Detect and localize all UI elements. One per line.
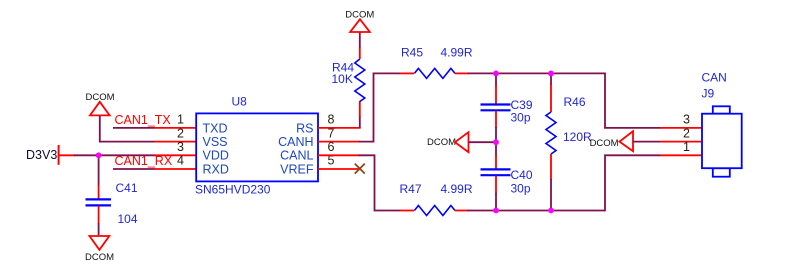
- svg-text:CAN1_RX: CAN1_RX: [115, 154, 173, 168]
- wire pin8 up to R44: [359, 116, 361, 128]
- svg-text:CAN: CAN: [702, 71, 727, 85]
- svg-text:RXD: RXD: [203, 162, 229, 176]
- svg-text:4: 4: [177, 154, 184, 168]
- pin 8 RS: [318, 127, 361, 129]
- pin 2 VSS: [154, 141, 196, 143]
- ground DCOM (mid, C39/C40 tap): [427, 132, 469, 152]
- pin 7 CANH: [318, 141, 359, 143]
- resistor R44: [332, 32, 365, 118]
- svg-text:120R: 120R: [563, 130, 592, 144]
- wire top rail to J9 pin 3: [605, 73, 661, 128]
- svg-text:4.99R: 4.99R: [441, 182, 473, 196]
- node C39/C40 junction: [493, 139, 499, 145]
- svg-text:30p: 30p: [511, 181, 531, 195]
- svg-text:DCOM: DCOM: [85, 252, 114, 263]
- node R46/bottom rail junction: [548, 208, 554, 214]
- resistor R46: [546, 73, 592, 210]
- wire node to pin 3: [99, 154, 155, 156]
- pin 1 TXD: [154, 127, 196, 129]
- svg-text:SN65HVD230: SN65HVD230: [195, 183, 271, 197]
- svg-text:R45: R45: [401, 45, 423, 59]
- node CANH/R46 junction: [548, 71, 554, 77]
- svg-text:2: 2: [177, 126, 184, 140]
- wire J9 DCOM to pin 2: [633, 141, 661, 143]
- net CAN1_RX: [113, 154, 173, 169]
- node C40/bottom rail junction: [493, 208, 499, 214]
- power DCOM (above R44): [345, 9, 374, 32]
- J9 pin 1 wire: [660, 154, 702, 156]
- wire bottom rail to J9 pin 1: [605, 155, 661, 211]
- svg-text:RS: RS: [296, 121, 313, 135]
- svg-text:R47: R47: [400, 182, 422, 196]
- wire CANL to bottom rail: [359, 155, 401, 210]
- node junction D3V3/C41/VDD: [96, 152, 102, 158]
- svg-text:DCOM: DCOM: [427, 137, 456, 148]
- net CAN1_TX: [113, 113, 171, 128]
- ground DCOM (below C41): [85, 236, 114, 263]
- pin 3 VDD: [154, 154, 196, 156]
- svg-text:VREF: VREF: [280, 162, 314, 176]
- pin 4 RXD: [154, 168, 196, 170]
- svg-text:U8: U8: [232, 95, 248, 109]
- svg-text:C41: C41: [116, 181, 138, 195]
- pin 6 CANL: [318, 154, 359, 156]
- svg-text:DCOM: DCOM: [590, 138, 619, 149]
- resistor R45: [400, 45, 473, 78]
- resistor R47: [400, 182, 473, 216]
- svg-text:CANL: CANL: [280, 149, 313, 163]
- no-connect X on VREF: [355, 164, 365, 174]
- svg-text:4.99R: 4.99R: [441, 45, 473, 59]
- svg-text:R46: R46: [564, 95, 586, 109]
- bottom rail wire: [468, 210, 606, 212]
- svg-text:C40: C40: [511, 168, 533, 182]
- svg-text:3: 3: [683, 113, 690, 127]
- capacitor C39: [481, 73, 533, 142]
- svg-text:VSS: VSS: [203, 135, 228, 149]
- svg-text:10K: 10K: [332, 72, 353, 86]
- wire DCOM to pin 2: [100, 115, 155, 141]
- node CANH/C39 junction: [493, 71, 499, 77]
- svg-text:8: 8: [328, 113, 335, 127]
- svg-text:104: 104: [118, 212, 138, 226]
- svg-text:VDD: VDD: [203, 149, 229, 163]
- capacitor C41: [86, 154, 138, 235]
- ground DCOM (at J9 pin 2): [590, 131, 633, 151]
- port D3V3: [26, 145, 75, 165]
- svg-text:J9: J9: [702, 87, 715, 101]
- wire CANH to top rail: [359, 73, 401, 141]
- pin 5 VREF: [318, 168, 359, 170]
- connector J9: [702, 71, 742, 177]
- svg-text:30p: 30p: [511, 110, 531, 124]
- svg-text:1: 1: [683, 140, 690, 154]
- J9 pin 3 wire: [660, 127, 702, 129]
- IC U8 SN65HVD230: [195, 95, 318, 197]
- svg-text:TXD: TXD: [203, 121, 228, 135]
- wire D3V3 to node: [74, 154, 99, 156]
- top rail wire: [468, 72, 606, 74]
- svg-text:CANH: CANH: [278, 135, 313, 149]
- svg-text:3: 3: [177, 140, 184, 154]
- J9 pin 2 wire: [660, 141, 702, 143]
- svg-text:D3V3: D3V3: [26, 148, 57, 162]
- wire mid DCOM to node: [469, 141, 497, 143]
- ground DCOM (left, above pin 2): [85, 92, 114, 115]
- svg-text:2: 2: [683, 126, 690, 140]
- capacitor C40: [481, 142, 533, 210]
- svg-text:1: 1: [177, 113, 184, 127]
- svg-text:CAN1_TX: CAN1_TX: [115, 113, 172, 127]
